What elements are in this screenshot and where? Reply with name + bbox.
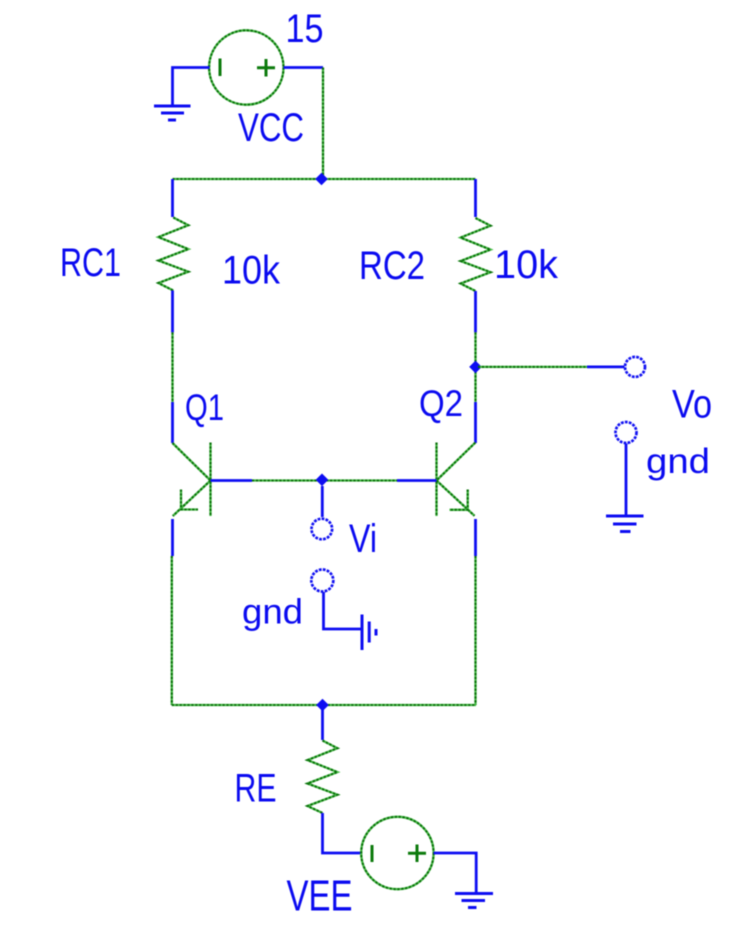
wire base Q1 to Q2 [252,479,397,481]
transistor Q2 [397,402,476,556]
svg-text:VCC: VCC [238,106,304,150]
ground GND2 [606,516,644,532]
wire VCC left lead to ground [173,68,210,106]
junction base wire [316,474,329,487]
ground GND4 [455,894,493,908]
wire VCC to top rail [322,68,324,180]
junction top rail [315,173,328,186]
svg-text:15: 15 [286,7,324,51]
wire RC2 to Q2 collector [474,332,476,402]
svg-text:Q1: Q1 [185,387,224,428]
wire RC1 to Q1 collector [171,332,173,402]
resistor RE [308,705,362,853]
svg-text:gnd: gnd [646,442,710,481]
wire bottom rail [172,704,476,706]
wire gnd middle to ground [324,592,362,629]
svg-text:gnd: gnd [242,593,303,632]
terminal Vi [312,519,333,540]
terminal gnd middle [311,570,333,592]
svg-text:Vo: Vo [672,383,712,427]
ground GND3 rotated [362,615,376,651]
wire top rail [173,178,476,180]
wire gnd terminal to ground [625,444,628,517]
wire Vo node to terminal [478,366,625,368]
transistor Q1 [173,402,253,556]
resistor RC1 [158,179,188,332]
wire VEE right lead to ground [434,853,477,892]
dc source VEE [361,817,433,889]
svg-text:10k: 10k [222,249,281,293]
wire junction to Vi terminal [321,486,324,517]
wire VCC right lead [284,66,324,69]
wire Q2 emitter down [474,556,476,705]
svg-text:VEE: VEE [287,872,353,921]
junction bottom rail [316,699,329,712]
svg-text:Q2: Q2 [419,383,463,424]
svg-text:Vi: Vi [349,517,377,561]
ground GND1 [154,106,191,120]
svg-text:RE: RE [235,767,277,811]
wire Q1 emitter down [171,556,173,705]
terminal gnd right [616,422,637,443]
resistor RC2 [461,179,491,332]
terminal Vo [625,357,645,377]
svg-text:RC2: RC2 [359,244,425,288]
svg-text:RC1: RC1 [60,241,121,285]
dc source VCC [209,30,283,104]
svg-text:10k: 10k [494,243,559,287]
junction Vo node [469,361,482,374]
